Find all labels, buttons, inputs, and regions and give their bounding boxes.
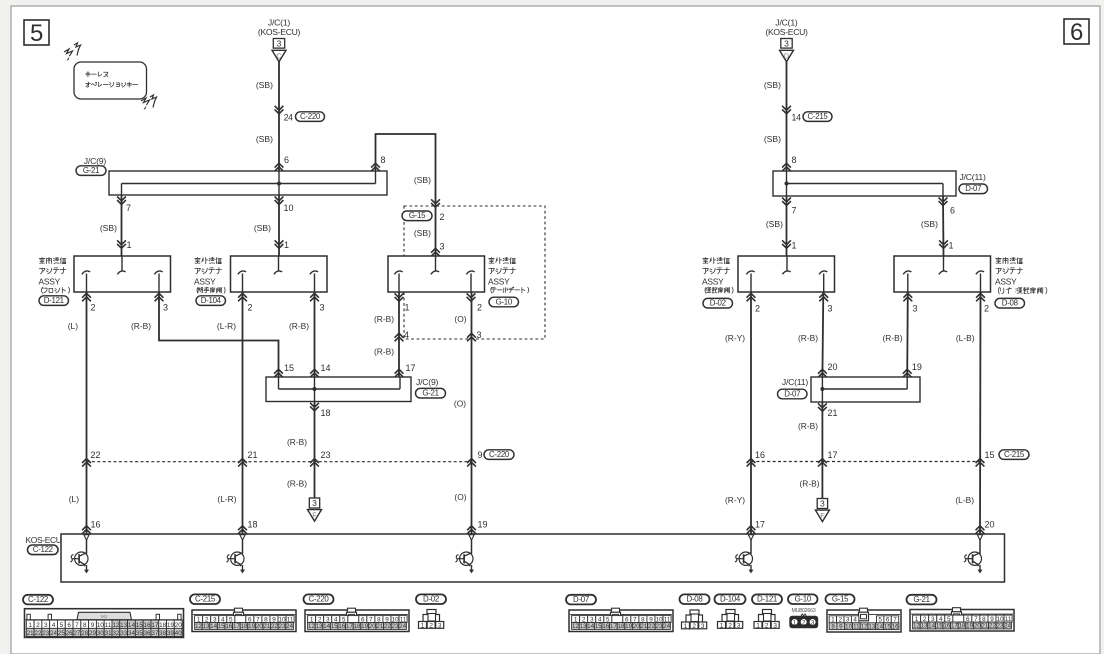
svg-text:21: 21	[27, 630, 34, 637]
transistor driver under pin 20	[964, 540, 983, 574]
wire D-02 pin 2 to ECU pin 17 (R-Y)	[750, 292, 752, 534]
connector pinout D-104 label	[715, 594, 746, 604]
svg-text:2: 2	[91, 302, 96, 312]
svg-text:36: 36	[144, 630, 151, 637]
pin 17 label	[755, 520, 765, 530]
svg-text:(SB): (SB)	[764, 80, 781, 90]
svg-text:7: 7	[126, 203, 131, 213]
svg-text:18: 18	[321, 408, 331, 418]
pin 4 label	[404, 330, 409, 340]
J/C(1) KOS-ECU label right	[765, 17, 808, 37]
svg-text:2: 2	[984, 303, 989, 313]
svg-text:(O): (O)	[454, 492, 466, 502]
svg-text:12: 12	[572, 623, 579, 630]
svg-text:21: 21	[640, 623, 647, 630]
svg-text:1: 1	[792, 241, 797, 251]
svg-text:G-21: G-21	[422, 389, 438, 398]
svg-text:3: 3	[773, 622, 777, 629]
svg-text:3: 3	[701, 623, 705, 630]
svg-text:20: 20	[828, 362, 838, 372]
svg-text:19: 19	[966, 623, 973, 630]
label (SB)	[921, 219, 938, 229]
svg-text:13: 13	[203, 623, 210, 630]
arrow down below J/C(11) pin 6	[939, 198, 948, 206]
arrow up into KOS-ECU	[238, 526, 247, 534]
J/C(11) label and D-07 oval	[959, 172, 988, 194]
svg-text:J/C(11): J/C(11)	[782, 377, 808, 387]
svg-text:D-08: D-08	[687, 595, 704, 604]
pin 1 label	[949, 241, 954, 251]
pin 8 label	[381, 155, 386, 165]
label (L-R)	[217, 494, 236, 504]
pins 2,3 arrows D-104	[238, 293, 324, 312]
svg-text:22: 22	[271, 623, 278, 630]
svg-text:12: 12	[913, 623, 920, 630]
svg-text:2: 2	[36, 622, 40, 629]
pin 17 label	[406, 363, 416, 373]
wire KOS-ECU to J/C(9) pin 6 (SB)	[278, 62, 280, 171]
J/C(9) label and G-21 oval	[76, 156, 106, 176]
J/C(1) KOS-ECU label left	[258, 17, 301, 37]
svg-text:(L-B): (L-B)	[955, 495, 974, 505]
svg-text:G-10: G-10	[496, 297, 513, 306]
svg-text:(R-B): (R-B)	[882, 333, 902, 343]
svg-text:23: 23	[392, 623, 399, 630]
label (SB)	[414, 228, 431, 238]
arrow down below J/C(9) pin 10	[275, 197, 284, 205]
label (SB)	[254, 223, 271, 233]
svg-text:39: 39	[167, 630, 174, 637]
pin 3 label	[477, 330, 482, 340]
outdoor transmission antenna ASSY driver box D-02	[738, 256, 835, 292]
svg-text:16: 16	[143, 622, 151, 629]
label (R-B)	[289, 321, 309, 331]
svg-text:5: 5	[60, 622, 64, 629]
svg-text:6: 6	[67, 622, 71, 629]
svg-text:11: 11	[105, 622, 112, 629]
svg-text:J/C(9): J/C(9)	[84, 156, 107, 166]
svg-text:1: 1	[720, 622, 724, 629]
svg-text:21: 21	[376, 623, 383, 630]
pins 3,2 arrows D-08	[903, 293, 989, 313]
svg-text:23: 23	[321, 450, 331, 460]
antenna G-10 text labels	[488, 257, 529, 306]
svg-text:2: 2	[248, 302, 253, 312]
arrow up into J/C(11) pin 19	[903, 369, 912, 377]
svg-text:2: 2	[765, 622, 769, 629]
arrow up into KOS-ECU	[82, 526, 91, 534]
svg-text:15: 15	[936, 623, 943, 630]
connector pinout C-122 label	[23, 595, 53, 605]
label (SB)	[414, 175, 431, 185]
wire J/C(9) pin 18 to ground ref (R-B)	[314, 402, 316, 499]
indoor transmission antenna ASSY rear box D-08	[894, 256, 991, 292]
svg-text:3: 3	[312, 498, 317, 508]
arrow up into KOS-ECU	[467, 526, 476, 534]
arrow down below J/C(9) pin 18	[310, 403, 319, 411]
label (R-B)	[799, 479, 819, 489]
svg-text:(L-B): (L-B)	[956, 333, 975, 343]
svg-text:22: 22	[989, 623, 996, 630]
svg-text:16: 16	[755, 450, 765, 460]
svg-text:18: 18	[618, 623, 625, 630]
connector pinout G-21	[910, 608, 1014, 631]
pin 1 label	[284, 240, 289, 250]
svg-text:(L): (L)	[68, 321, 78, 331]
svg-text:17: 17	[233, 623, 240, 630]
svg-text:C: C	[276, 51, 281, 60]
svg-text:20: 20	[369, 623, 376, 630]
svg-text:13: 13	[316, 623, 323, 630]
ECU pin socket under pin 16	[84, 535, 89, 540]
arrow up at C-122 crossing	[310, 459, 319, 467]
svg-text:9: 9	[91, 622, 95, 629]
svg-text:30: 30	[97, 630, 104, 637]
pin 19 label	[912, 362, 922, 372]
indoor transmission antenna ASSY front box D-121	[74, 256, 171, 292]
svg-text:37: 37	[151, 630, 158, 637]
svg-text:D-121: D-121	[44, 296, 64, 305]
svg-text:3: 3	[320, 302, 325, 312]
svg-text:6: 6	[1070, 19, 1083, 46]
svg-text:(SB): (SB)	[100, 223, 117, 233]
pin 3 label tailgate	[440, 242, 445, 252]
svg-text:G-15: G-15	[409, 211, 426, 220]
svg-text:18: 18	[248, 520, 258, 530]
label (L)	[69, 494, 79, 504]
svg-text:24: 24	[284, 113, 294, 123]
svg-text:(SB): (SB)	[921, 219, 938, 229]
arrow up into J/C(11)	[782, 163, 791, 171]
arrow down below J/C(11) pin 7	[782, 198, 791, 206]
svg-text:10: 10	[284, 203, 294, 213]
svg-text:18: 18	[959, 623, 966, 630]
connector pinout D-07 label	[566, 595, 596, 605]
svg-text:J/C(9): J/C(9)	[416, 377, 439, 387]
svg-text:2: 2	[755, 303, 760, 313]
svg-text:23: 23	[656, 623, 663, 630]
svg-text:3: 3	[277, 38, 282, 48]
svg-text:(O): (O)	[454, 398, 466, 408]
svg-text:14: 14	[928, 623, 935, 630]
connector pinout C-215	[192, 608, 296, 631]
svg-text:17: 17	[406, 363, 416, 373]
svg-text:15: 15	[218, 623, 225, 630]
arrow down into driver antenna	[782, 240, 791, 248]
svg-text:28: 28	[81, 630, 88, 637]
KOS-ECU label and C-122 oval	[26, 535, 62, 555]
connector pinout C-220	[305, 608, 409, 631]
svg-text:13: 13	[120, 622, 128, 629]
svg-text:C-215: C-215	[1004, 450, 1025, 459]
svg-text:12: 12	[195, 623, 202, 630]
svg-text:24: 24	[1004, 623, 1011, 630]
svg-text:(SB): (SB)	[414, 175, 431, 185]
junction connector J/C(9) upper box	[109, 171, 387, 195]
ground ref symbol 3/F right	[815, 499, 829, 522]
svg-text:14: 14	[792, 113, 802, 123]
svg-text:15: 15	[985, 450, 995, 460]
svg-text:(R-B): (R-B)	[374, 346, 394, 356]
pin 18 label	[321, 408, 331, 418]
svg-text:D-02: D-02	[710, 299, 726, 308]
pin 1 label	[127, 240, 132, 250]
label (SB)	[100, 223, 117, 233]
arrow up at C-122 crossing	[82, 459, 91, 467]
svg-text:15: 15	[595, 623, 602, 630]
svg-text:(SB): (SB)	[764, 134, 781, 144]
ECU pin socket under pin 20	[977, 535, 982, 540]
svg-text:3: 3	[440, 242, 445, 252]
svg-text:3: 3	[913, 303, 918, 313]
svg-text:15: 15	[284, 363, 294, 373]
arrow down on wire	[782, 106, 791, 114]
arrow up into KOS-ECU	[747, 526, 756, 534]
svg-text:3: 3	[477, 330, 482, 340]
wire D-08 pin 2 to ECU pin 20 (L-B)	[979, 292, 982, 534]
label (O)	[454, 492, 466, 502]
svg-text:3: 3	[44, 622, 48, 629]
svg-text:D-08: D-08	[1002, 299, 1019, 308]
wire KOS-ECU to J/C(11) pin 8 (SB)	[786, 62, 788, 171]
arrow down into outside antenna	[275, 240, 284, 248]
svg-text:3: 3	[828, 303, 833, 313]
connector ref symbol 3/C left	[272, 38, 286, 61]
svg-text:20: 20	[633, 623, 640, 630]
wire J/C(11) pin 21 to ground ref (R-B)	[821, 402, 823, 499]
svg-text:16: 16	[338, 623, 345, 630]
svg-text:17: 17	[346, 623, 353, 630]
svg-text:8: 8	[83, 622, 87, 629]
svg-text:15: 15	[331, 623, 338, 630]
arrow up into J/C(11) pin 20	[818, 369, 827, 377]
svg-text:9: 9	[478, 450, 483, 460]
svg-text:D-104: D-104	[720, 595, 741, 604]
svg-text:6: 6	[950, 206, 955, 216]
svg-text:C-220: C-220	[309, 595, 330, 604]
page frame number 6	[1064, 19, 1089, 46]
svg-text:21: 21	[981, 623, 988, 630]
radio-wave arrows lower-right	[141, 95, 157, 110]
svg-text:1: 1	[28, 622, 32, 629]
svg-text:2: 2	[728, 622, 732, 629]
pins 2,3 arrows D-121	[82, 293, 168, 312]
svg-text:19: 19	[248, 623, 255, 630]
svg-text:G-10: G-10	[795, 595, 812, 604]
arrow up into J/C(9) pin 14	[310, 369, 319, 377]
antenna D-121 text labels	[39, 257, 70, 305]
svg-text:MJ: MJ	[101, 614, 107, 619]
wire G-10 pin 1 to J/C(9) pin 17 (R-B)	[398, 292, 400, 377]
svg-text:18: 18	[354, 623, 361, 630]
svg-text:16: 16	[225, 623, 232, 630]
connector pinout D-104	[718, 610, 743, 630]
pin 19 label	[478, 520, 488, 530]
J/C(11) internal bus	[787, 171, 944, 196]
svg-text:3: 3	[438, 622, 442, 629]
callout box keyless operation key	[74, 62, 147, 99]
connector pinout G-15 label	[826, 594, 855, 604]
pin 22 label	[91, 450, 101, 460]
svg-text:(L): (L)	[69, 494, 79, 504]
label (R-B)	[798, 421, 818, 431]
label (L-B)	[956, 333, 975, 343]
svg-text:(R-Y): (R-Y)	[725, 495, 745, 505]
wire D-121 pin 2 to ECU pin 16 (L)	[86, 292, 88, 534]
svg-text:14: 14	[128, 622, 136, 629]
arrow up into J/C(9) pin 15	[274, 369, 283, 377]
wire D-121 pin 3 to J/C(9) pin 15 (R-B)	[159, 292, 279, 377]
svg-text:24: 24	[399, 623, 406, 630]
pin 7 label	[792, 206, 797, 216]
svg-text:18: 18	[241, 623, 248, 630]
connector ref symbol 3/D right	[780, 38, 794, 61]
svg-text:2: 2	[440, 212, 445, 222]
pin 15 label	[284, 363, 294, 373]
label (L)	[68, 321, 78, 331]
svg-text:14: 14	[210, 623, 217, 630]
transistor driver under pin 18	[226, 540, 245, 574]
svg-text:32: 32	[112, 630, 119, 637]
connector pinout D-02	[419, 610, 444, 630]
J/C(9) lower label and G-21 oval	[416, 377, 446, 398]
connector pinout G-21 label	[907, 595, 937, 605]
svg-text:D-121: D-121	[757, 595, 777, 604]
svg-text:J/C(1): J/C(1)	[775, 17, 798, 27]
pin 9 label and C-220 oval	[478, 450, 515, 460]
label (R-B)	[131, 321, 151, 331]
svg-text:(O): (O)	[454, 314, 466, 324]
svg-text:C-122: C-122	[28, 595, 48, 604]
connector pinout D-07	[569, 608, 673, 631]
svg-text:24: 24	[50, 630, 57, 637]
svg-text:1: 1	[756, 622, 760, 629]
svg-text:35: 35	[136, 630, 143, 637]
arrow up at boundary crossing	[467, 333, 476, 341]
svg-text:38: 38	[159, 630, 166, 637]
wire J/C(9) pin 10 down (SB)	[278, 195, 280, 256]
connector pinout D-121	[754, 610, 779, 630]
pin 14 label	[321, 363, 331, 373]
pin 18 label	[248, 520, 258, 530]
arrow up into J/C(9) pin 8	[371, 163, 380, 171]
svg-text:(SB): (SB)	[254, 223, 271, 233]
svg-text:(R-B): (R-B)	[287, 437, 307, 447]
svg-text:7: 7	[75, 622, 79, 629]
svg-text:D: D	[784, 51, 789, 60]
svg-text:13: 13	[921, 623, 928, 630]
arrow up into tailgate antenna	[431, 248, 440, 256]
pins 1,2 arrows G-10	[395, 293, 482, 312]
wire J/C(9) pin 7 down (SB)	[121, 195, 123, 256]
arrow up at boundary crossing	[395, 333, 404, 341]
pin 16 label	[755, 450, 765, 460]
pin 7 label	[126, 203, 131, 213]
label (L-R)	[217, 321, 236, 331]
svg-text:16: 16	[602, 623, 609, 630]
J/C(9) lower internal bus	[279, 377, 401, 402]
label (R-B)	[882, 333, 902, 343]
svg-text:1: 1	[127, 240, 132, 250]
svg-text:13: 13	[580, 623, 587, 630]
svg-text:14: 14	[587, 623, 594, 630]
ECU pin socket under pin 19	[469, 535, 474, 540]
label (R-B)	[374, 314, 394, 324]
pin 24 label and C-220 connector oval	[284, 112, 325, 123]
svg-text:2: 2	[692, 623, 696, 630]
svg-text:(R-B): (R-B)	[374, 314, 394, 324]
pin 10 label	[284, 203, 294, 213]
svg-text:J/C(11): J/C(11)	[960, 172, 986, 182]
label (O)	[454, 398, 466, 408]
svg-text:1: 1	[284, 240, 289, 250]
arrow down into front antenna	[117, 240, 126, 248]
label (SB)	[764, 134, 781, 144]
svg-text:D-02: D-02	[423, 595, 439, 604]
arrow up into J/C(9)	[275, 163, 284, 171]
svg-text:ASSY: ASSY	[488, 277, 510, 287]
antenna D-104 text labels	[194, 257, 226, 305]
svg-text:8: 8	[792, 155, 797, 165]
transistor driver under pin 19	[455, 540, 474, 574]
arrow up at C-215 crossing	[818, 459, 827, 467]
svg-text:(L-R): (L-R)	[217, 321, 236, 331]
svg-text:KOS-ECU: KOS-ECU	[26, 535, 62, 545]
label (R-B)	[287, 479, 307, 489]
svg-text:25: 25	[58, 630, 65, 637]
wire J/C(11) pin 7 down (SB)	[786, 196, 788, 256]
junction dot	[820, 387, 824, 391]
outdoor transmission antenna ASSY tailgate box G-10	[388, 256, 485, 292]
svg-text:3: 3	[737, 622, 741, 629]
junction dot	[785, 182, 789, 186]
pin 14 label and C-215 oval	[792, 112, 833, 123]
J/C(11) lower label and D-07 oval	[778, 377, 809, 399]
svg-text:22: 22	[35, 630, 42, 637]
svg-text:10: 10	[97, 622, 105, 629]
arrow up into KOS-ECU	[976, 526, 985, 534]
arrow up at C-215 crossing	[747, 459, 756, 467]
svg-text:C-215: C-215	[195, 595, 216, 604]
svg-text:G-15: G-15	[832, 595, 849, 604]
svg-text:2: 2	[429, 622, 433, 629]
svg-text:22: 22	[384, 623, 391, 630]
svg-text:12: 12	[308, 623, 315, 630]
page frame number 5	[24, 20, 49, 47]
label (R-Y)	[725, 495, 745, 505]
svg-text:20: 20	[175, 622, 183, 629]
svg-text:16: 16	[943, 623, 950, 630]
svg-text:10: 10	[845, 623, 852, 630]
svg-text:3: 3	[163, 302, 168, 312]
svg-text:22: 22	[648, 623, 655, 630]
pin 20 label	[828, 362, 838, 372]
dashed boundary box tailgate	[404, 206, 545, 339]
svg-text:20: 20	[974, 623, 981, 630]
svg-text:G-21: G-21	[913, 595, 929, 604]
wire J/C(9) pin 8 over to tailgate antenna (SB)	[376, 134, 436, 256]
svg-text:MU802663: MU802663	[792, 608, 816, 614]
svg-text:21: 21	[248, 450, 258, 460]
dashed connector line C-122 left	[87, 461, 472, 463]
svg-text:1: 1	[793, 619, 797, 626]
svg-text:9: 9	[839, 623, 843, 630]
arrow up at C-122 crossing	[238, 459, 247, 467]
pin 1 label	[792, 241, 797, 251]
label (R-B)	[374, 346, 394, 356]
svg-text:34: 34	[128, 630, 135, 637]
svg-text:17: 17	[951, 623, 958, 630]
